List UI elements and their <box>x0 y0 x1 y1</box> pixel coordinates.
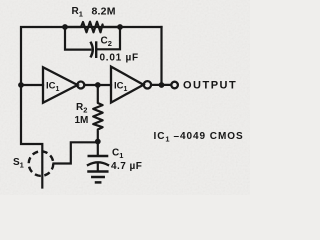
capacitor C1 <box>89 155 107 158</box>
wire: input to first inverter <box>21 84 43 86</box>
svg-text:0.01 µF: 0.01 µF <box>100 53 139 64</box>
node OUTPUT terminal <box>171 82 178 89</box>
op-amp U2 inverter IC1b triangle <box>111 67 144 103</box>
wire: feedback vertical to output node <box>160 27 162 85</box>
node junction top-left of C2 <box>62 24 68 30</box>
wire: top feedback rail, left rail, down to switch stem <box>21 27 162 188</box>
op-amp U1 inverter IC1a triangle <box>43 67 78 103</box>
wire: node to C1 <box>97 142 99 155</box>
inverter bubble 2 <box>144 81 151 88</box>
wire: output segment <box>151 84 171 86</box>
node junction inverter1 input <box>18 82 24 88</box>
wire: between inverters <box>85 84 112 86</box>
switch S1 dashed circle <box>29 151 54 176</box>
svg-text:8.2M: 8.2M <box>92 6 116 18</box>
svg-text:4.7 µF: 4.7 µF <box>111 161 142 172</box>
capacitor C2 <box>91 43 93 57</box>
inverter bubble 1 <box>77 82 84 89</box>
resistor R2 <box>93 85 102 139</box>
node junction between inverters <box>95 82 101 88</box>
wire: C2 right stub <box>97 27 120 49</box>
ground <box>89 170 108 173</box>
wire: C2 left stub <box>65 27 90 50</box>
svg-text:1M: 1M <box>75 115 89 126</box>
node junction output feedback <box>159 82 165 88</box>
node junction R2/C1/S1 <box>95 139 101 145</box>
node junction top-right of C2 <box>117 24 123 30</box>
wire: switch S1 arm to node <box>54 142 96 163</box>
paper background <box>0 0 250 195</box>
resistor R1 <box>65 22 120 33</box>
svg-text:OUTPUT: OUTPUT <box>183 80 237 92</box>
